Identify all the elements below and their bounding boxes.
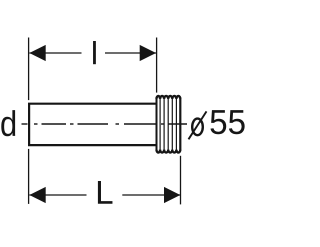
label d xyxy=(1,110,15,136)
label ø55: diameter symbol xyxy=(192,119,203,136)
pipe body outline xyxy=(29,104,157,145)
centerline dash-dot xyxy=(22,123,188,125)
dimension L: extension lines xyxy=(29,149,181,205)
label l xyxy=(93,41,96,64)
dimension l: arrows xyxy=(29,45,156,61)
thread: vertical flank lines xyxy=(157,98,181,150)
dimension l: line segments xyxy=(29,52,156,54)
label L xyxy=(98,181,113,204)
dimension L: line segments xyxy=(29,194,180,196)
thread: bottom crest arcs xyxy=(157,150,181,153)
thread: top crest arcs xyxy=(157,96,181,99)
dimension L: arrows xyxy=(29,187,180,203)
dimension l: extension lines xyxy=(29,38,157,101)
label 55 xyxy=(211,110,245,134)
